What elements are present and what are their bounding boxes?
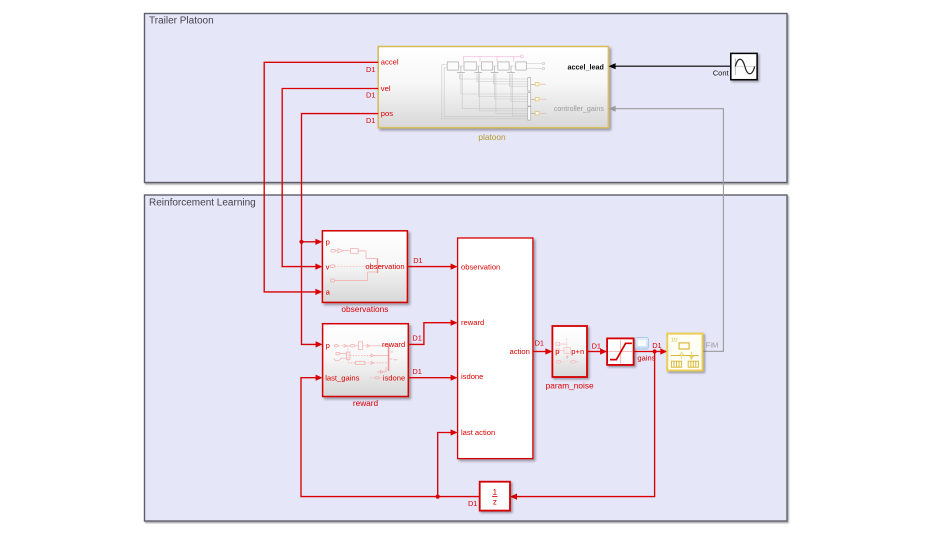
wire reward to agent: [408, 320, 457, 345]
observations preview drawing: [330, 249, 384, 282]
platoon preview drawing: [442, 62, 545, 119]
svg-text:last_gains: last_gains: [325, 373, 359, 382]
svg-text:p: p: [326, 237, 330, 246]
RL agent block: [458, 238, 533, 459]
svg-text:D1: D1: [592, 341, 601, 350]
svg-text:reward: reward: [382, 340, 405, 349]
svg-text:observation: observation: [461, 263, 500, 272]
svg-text:param_noise: param_noise: [546, 380, 594, 390]
svg-text:p+n: p+n: [571, 347, 584, 356]
svg-text:D1: D1: [366, 116, 375, 125]
wire param_noise to saturation: [587, 341, 607, 354]
wire action to param_noise: [533, 338, 553, 354]
svg-text:isdone: isdone: [383, 373, 405, 382]
svg-text:Reinforcement Learning: Reinforcement Learning: [149, 198, 256, 209]
svg-text:observations: observations: [341, 304, 388, 314]
svg-text:D1: D1: [366, 65, 375, 74]
svg-text:Trailer Platoon: Trailer Platoon: [149, 16, 214, 27]
svg-text:D1: D1: [652, 341, 661, 350]
area Reinforcement Learning: [145, 195, 788, 521]
svg-text:D1: D1: [535, 338, 544, 347]
svg-text:vel: vel: [381, 84, 391, 93]
svg-text:1/z: 1/z: [671, 337, 679, 343]
svg-text:D1: D1: [412, 367, 421, 376]
svg-text:reward: reward: [353, 398, 379, 408]
svg-text:isdone: isdone: [461, 372, 483, 381]
subsystem platoon: [378, 47, 608, 128]
wire accel to a: [264, 62, 378, 295]
svg-text:action: action: [510, 347, 530, 356]
svg-text:reward: reward: [461, 318, 484, 327]
area Trailer Platoon: [145, 14, 788, 183]
signal generator block: [731, 53, 757, 79]
wire pos to p and reward p: [299, 114, 378, 348]
svg-text:accel: accel: [381, 58, 399, 67]
param_noise preview drawing: [556, 339, 579, 364]
wire isdone to agent: [408, 367, 457, 381]
svg-text:D1: D1: [366, 91, 375, 100]
subsystem observations: [322, 231, 407, 303]
unit delay block 1/z: [480, 482, 510, 511]
wire sine to accel_lead: [609, 63, 731, 69]
svg-text:D1: D1: [468, 499, 477, 508]
svg-text:Cont: Cont: [713, 69, 730, 78]
svg-text:pos: pos: [381, 109, 393, 118]
svg-text:FiM: FiM: [706, 341, 719, 350]
wire saturation to FiM and down to unit delay: [510, 341, 667, 500]
svg-text:p: p: [326, 341, 330, 350]
svg-text:last action: last action: [461, 428, 495, 437]
svg-text:v: v: [326, 262, 330, 271]
svg-text:D1: D1: [412, 333, 421, 342]
svg-text:p: p: [555, 347, 559, 356]
reward preview drawing: [334, 342, 397, 379]
wire unit delay to last_gains and last action: [301, 375, 480, 499]
svg-text:observation: observation: [365, 262, 404, 271]
viewer badge: [635, 338, 648, 350]
saturation block: [607, 338, 634, 365]
wire FiM to controller_gains: [609, 106, 724, 352]
svg-text:platoon: platoon: [478, 132, 506, 142]
svg-text:accel_lead: accel_lead: [568, 63, 604, 72]
svg-text:1: 1: [493, 488, 498, 497]
subsystem param_noise: [552, 326, 587, 377]
svg-text:z: z: [493, 498, 497, 507]
svg-text:gains: gains: [637, 353, 655, 362]
subsystem reward: [323, 324, 409, 397]
data store memory FiM: [667, 334, 702, 371]
wire observation to agent: [407, 256, 457, 270]
wire vel to v: [282, 89, 378, 270]
svg-text:controller_gains: controller_gains: [554, 105, 605, 113]
svg-text:D1: D1: [413, 256, 422, 265]
